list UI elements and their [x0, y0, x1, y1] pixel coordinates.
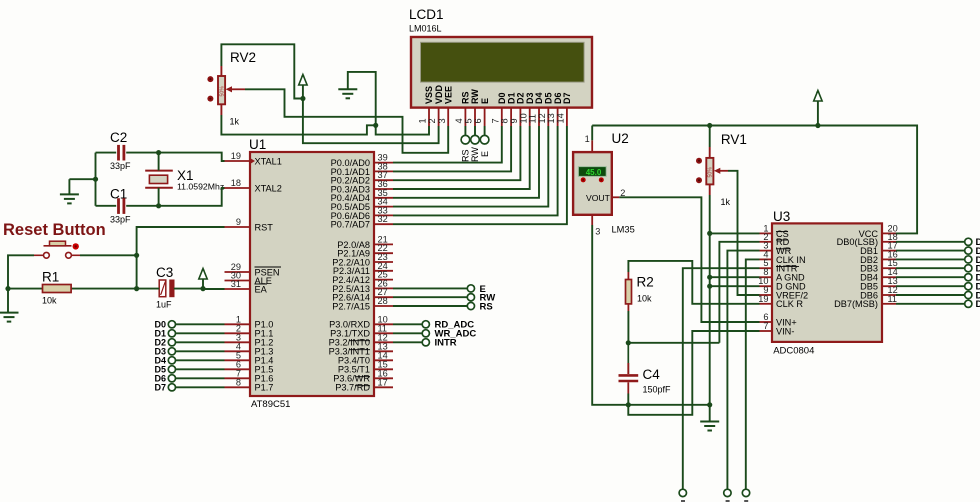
svg-text:5: 5: [464, 118, 474, 123]
wire C2 row to XTAL1: [96, 153, 225, 161]
wire crystal X1 to C2/C1 rows: [158, 153, 160, 206]
svg-text:C2: C2: [110, 130, 127, 145]
svg-text:11: 11: [888, 294, 898, 304]
node crystal bottom junction: [156, 203, 161, 208]
wire C1 row to XTAL2: [96, 188, 225, 206]
svg-text:3: 3: [437, 118, 447, 123]
wire INTR to terminal column: [683, 268, 760, 489]
svg-text:LM016L: LM016L: [409, 24, 442, 34]
svg-text:33pF: 33pF: [110, 215, 131, 225]
push button reset switch: [34, 241, 80, 258]
wire RV2 wiper to LCD VEE: [245, 89, 448, 153]
terminal RW below LCD: [470, 135, 480, 162]
ground below U3 area: [700, 422, 719, 431]
svg-text:INTR: INTR: [435, 338, 457, 349]
svg-text:1: 1: [585, 134, 590, 144]
terminal E below LCD: [480, 135, 490, 157]
IC U2 LM35 temperature sensor: [573, 131, 635, 237]
svg-text:Reset Button: Reset Button: [3, 221, 106, 239]
svg-text:LM35: LM35: [612, 225, 635, 235]
svg-text:50%: 50%: [219, 86, 225, 97]
svg-text:6: 6: [473, 118, 483, 123]
wire C3 to EA pin 31: [203, 288, 225, 290]
svg-text:RS: RS: [480, 301, 493, 312]
wire button left to R1 left: [8, 255, 34, 288]
terminals D0-D7 at U1 P1 port: [154, 319, 224, 392]
wire and terminal RW at U1: [393, 293, 495, 304]
svg-text:RST: RST: [255, 222, 274, 232]
svg-text:C3: C3: [156, 265, 173, 280]
node crystal top junction: [156, 150, 161, 155]
terminal below left RD_ADC: [679, 489, 686, 502]
svg-text:19: 19: [758, 294, 768, 304]
svg-text:VSS: VSS: [424, 86, 434, 104]
wire LCD D6 to U1 P0.6: [393, 126, 558, 215]
svg-text:18: 18: [231, 178, 241, 188]
node RV1 rail junction: [707, 123, 712, 128]
svg-text:1k: 1k: [721, 197, 731, 207]
svg-text:28: 28: [378, 296, 388, 306]
wire LCD D5 to U1 P0.5: [393, 126, 548, 207]
wire VDD pin2 to power node: [303, 99, 439, 144]
wire CLK IN to bottom terminal: [746, 259, 760, 489]
wire left vertical C2 to C1: [95, 153, 97, 206]
LCD RS RW E terminal wires: [465, 126, 484, 136]
capacitor C4 150pfF: [619, 343, 672, 395]
svg-text:AT89C51: AT89C51: [251, 399, 290, 410]
svg-text:P1.7: P1.7: [255, 383, 274, 393]
crystal X1 11.0592Mhz: [145, 168, 224, 192]
wire LCD D2 to U1 P0.2: [393, 126, 520, 180]
svg-text:U3: U3: [773, 209, 790, 224]
ground below R1: [0, 313, 19, 322]
wire and terminal E at U1: [393, 284, 486, 295]
wire U2 VOUT to VIN+: [619, 197, 759, 322]
svg-text:10k: 10k: [637, 294, 652, 304]
wire down to reset ground: [7, 289, 9, 313]
wire CS to ground bus: [710, 232, 760, 234]
svg-text:R1: R1: [42, 270, 59, 285]
terminal below middle WR_ADC: [724, 489, 731, 502]
svg-text:CLK R: CLK R: [776, 299, 803, 309]
wire LCD D7 to U1 P0.7: [393, 126, 567, 224]
svg-text:RS: RS: [461, 91, 471, 104]
svg-text:VOUT: VOUT: [586, 193, 611, 203]
wire LCD D1 to U1 P0.1: [393, 126, 511, 171]
svg-text:U1: U1: [249, 137, 266, 152]
LCD1 pin stubs and pin numbers 1-14: [418, 108, 567, 126]
svg-text:11.0592Mhz: 11.0592Mhz: [177, 182, 224, 192]
wire and terminal RS at U1: [393, 301, 493, 312]
wire RV2 top to +5V node: [221, 44, 303, 98]
svg-text:D7: D7: [976, 299, 980, 310]
ground near crystal: [60, 194, 79, 203]
svg-text:C4: C4: [643, 367, 661, 382]
wire button right to RST vertical: [80, 254, 137, 256]
U3 DB0-DB7 terminals D0-D7: [896, 237, 980, 310]
svg-text:R2: R2: [637, 275, 654, 290]
svg-text:31: 31: [231, 279, 241, 289]
U1 right pin stubs, numbers and names: [329, 153, 393, 393]
svg-text:XTAL2: XTAL2: [255, 183, 282, 193]
node VDD power junction: [300, 96, 305, 101]
svg-text:DB7(MSB): DB7(MSB): [834, 299, 878, 309]
U3 left pin stubs numbers and names: [758, 223, 808, 336]
svg-text:D7: D7: [154, 382, 166, 392]
potentiometer RV1 1k: [696, 132, 747, 207]
wire and terminal RD_ADC at U1: [393, 320, 474, 331]
power +5V arrow near C3: [199, 269, 207, 289]
label Reset Button: [3, 221, 106, 239]
IC U1 AT89C51 microcontroller body: [249, 137, 374, 410]
svg-text:19: 19: [231, 151, 241, 161]
resistor R2 10k: [626, 272, 654, 311]
node R1 C3 junction: [134, 286, 139, 291]
resistor R1 10k: [8, 270, 137, 306]
power +5V arrow near RV2: [299, 75, 307, 99]
capacitor C3 1uF: [137, 265, 203, 310]
svg-text:2: 2: [427, 118, 437, 123]
node R1 ground junction: [5, 286, 10, 291]
power +5V arrow on rail: [814, 91, 822, 126]
capacitor C2 33pF: [110, 130, 131, 171]
svg-text:P0.7/AD7: P0.7/AD7: [331, 220, 370, 230]
node C4 ground junction: [626, 402, 631, 407]
node power rail arrow junction: [815, 123, 820, 128]
U1 left pin stubs, numbers and names: [225, 151, 282, 393]
svg-text:17: 17: [378, 377, 388, 387]
node C3 EA junction: [200, 286, 205, 291]
ground above LCD: [338, 89, 357, 98]
wire RST pin to R1/C3 node: [137, 227, 225, 289]
svg-text:1k: 1k: [230, 117, 240, 127]
svg-text:VIN-: VIN-: [776, 326, 794, 336]
svg-text:RS: RS: [461, 149, 471, 162]
wire LCD D3 to U1 P0.3: [393, 126, 530, 189]
svg-text:10k: 10k: [42, 296, 57, 306]
node U2 ground wire junction: [707, 402, 712, 407]
svg-text:E: E: [480, 98, 490, 104]
svg-text:7: 7: [763, 321, 768, 331]
wire WR to terminal column: [727, 251, 759, 490]
terminal RS below LCD: [461, 135, 471, 162]
wire U2 pin3 to ground bus: [592, 225, 710, 405]
svg-text:VDD: VDD: [434, 84, 444, 104]
node R2 C4 junction: [626, 340, 631, 345]
wire A GND to ground bus: [710, 276, 760, 278]
svg-text:14: 14: [556, 113, 566, 123]
wire RV2 bottom to VSS rail: [221, 115, 375, 135]
svg-text:VEE: VEE: [443, 86, 453, 104]
wire RV1 top to +5V rail: [709, 126, 711, 148]
svg-text:4: 4: [454, 118, 464, 123]
svg-text:RV2: RV2: [230, 50, 256, 65]
wire +5V power rail: [592, 126, 917, 234]
wire VSS pin1 to ground node: [376, 125, 429, 134]
svg-text:EA: EA: [255, 284, 268, 294]
capacitor C1 33pF: [110, 187, 131, 225]
wire RD to terminal column: [719, 242, 759, 343]
wire ground bus RV1 bottom to ground: [709, 195, 711, 422]
svg-text:P3.7/RD: P3.7/RD: [335, 383, 370, 393]
svg-text:LCD1: LCD1: [409, 7, 444, 22]
node xtal ground junction: [93, 177, 98, 182]
wire and terminal INTR at U1: [393, 338, 457, 349]
svg-text:1: 1: [418, 118, 428, 123]
LCD display LCD1 LM016L: [409, 7, 592, 108]
node D GND junction: [707, 284, 712, 289]
node LCD ground junction: [373, 123, 378, 128]
wire and terminal WR_ADC at U1: [393, 329, 476, 340]
svg-text:3: 3: [595, 227, 600, 237]
IC U3 ADC0804 body: [772, 209, 882, 357]
svg-text:33pF: 33pF: [110, 161, 131, 171]
svg-text:ADC0804: ADC0804: [773, 346, 814, 357]
svg-text:P2.7/A15: P2.7/A15: [332, 301, 370, 311]
svg-text:1uF: 1uF: [156, 300, 172, 310]
wire to xtal ground: [69, 179, 95, 194]
svg-text:E: E: [480, 151, 490, 157]
U3 right pin stubs numbers and names: [834, 223, 898, 309]
wire ground feed above LCD: [348, 72, 376, 125]
svg-text:45.0: 45.0: [586, 168, 602, 177]
wire R2 bottom to C4 top node: [628, 311, 719, 343]
wire U2 pin1 to +5V rail: [591, 126, 593, 141]
svg-text:D7: D7: [562, 92, 572, 104]
node button junction: [134, 253, 139, 258]
terminal below right INTR: [742, 489, 749, 502]
svg-text:32: 32: [378, 214, 388, 224]
svg-text:RW: RW: [470, 89, 480, 104]
wire LCD D0 to U1 P0.0: [393, 126, 502, 163]
svg-text:RW: RW: [470, 147, 480, 162]
wire CLK R to R2 top: [628, 261, 759, 304]
node CS ground junction: [707, 231, 712, 236]
svg-text:9: 9: [236, 217, 241, 227]
wire RV1 wiper to VREF/2: [728, 171, 760, 295]
svg-text:8: 8: [236, 377, 241, 387]
wire D GND to ground bus: [710, 285, 760, 287]
svg-text:50%: 50%: [708, 167, 714, 178]
svg-text:U2: U2: [612, 131, 629, 146]
potentiometer RV2 1k: [207, 50, 256, 127]
wire LCD D4 to U1 P0.4: [393, 126, 539, 198]
svg-text:150pfF: 150pfF: [643, 385, 672, 395]
svg-text:RV1: RV1: [721, 132, 747, 147]
wire VIN- to C4 bottom: [628, 331, 759, 415]
svg-text:XTAL1: XTAL1: [255, 156, 282, 166]
node A GND junction: [707, 275, 712, 280]
